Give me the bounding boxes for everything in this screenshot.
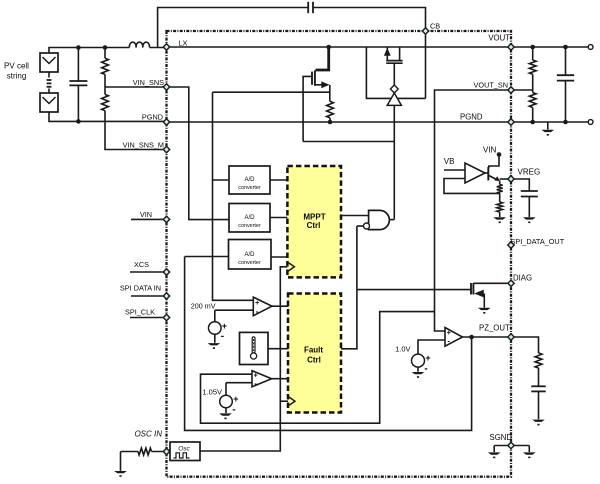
svg-text:converter: converter <box>238 223 261 229</box>
svg-text:Osc: Osc <box>178 446 190 453</box>
svg-text:VREG: VREG <box>518 168 541 177</box>
svg-text:-: - <box>256 306 259 316</box>
svg-text:A/D: A/D <box>244 215 255 221</box>
svg-text:1.05V: 1.05V <box>202 388 222 397</box>
svg-text:Ctrl: Ctrl <box>307 221 321 230</box>
svg-text:SPI_CLK: SPI_CLK <box>125 308 155 317</box>
svg-text:PGND: PGND <box>142 113 163 122</box>
svg-text:VIN: VIN <box>140 210 152 219</box>
svg-text:string: string <box>7 72 27 81</box>
svg-text:CB: CB <box>430 22 440 31</box>
svg-text:converter: converter <box>238 185 261 191</box>
svg-text:SGND: SGND <box>490 433 513 442</box>
svg-text:1.0V: 1.0V <box>395 345 410 354</box>
svg-text:VIN: VIN <box>483 146 497 155</box>
svg-text:+: + <box>425 353 430 363</box>
svg-text:VOUT_SN: VOUT_SN <box>474 81 508 90</box>
svg-text:A/D: A/D <box>244 177 255 183</box>
svg-text:XCS: XCS <box>134 260 149 269</box>
svg-text:converter: converter <box>238 260 261 266</box>
svg-text:Ctrl: Ctrl <box>307 356 321 365</box>
svg-text:A/D: A/D <box>244 252 255 258</box>
svg-text:PZ_OUT: PZ_OUT <box>479 324 510 333</box>
svg-text:200 mV: 200 mV <box>191 302 216 311</box>
svg-text:-: - <box>221 331 224 342</box>
svg-text:-: - <box>232 405 235 416</box>
svg-text:-: - <box>424 363 427 374</box>
svg-text:VIN_SNS: VIN_SNS <box>133 78 164 87</box>
svg-text:+: + <box>233 394 238 404</box>
svg-text:OSC IN: OSC IN <box>134 430 162 439</box>
svg-text:-: - <box>254 379 257 388</box>
svg-text:VB: VB <box>444 157 455 166</box>
svg-text:Fault: Fault <box>304 346 323 355</box>
svg-text:VIN_SNS_M: VIN_SNS_M <box>123 141 164 150</box>
svg-text:-: - <box>447 336 450 345</box>
svg-text:PGND: PGND <box>460 113 483 122</box>
svg-text:VOUT: VOUT <box>488 34 510 43</box>
svg-text:DIAG: DIAG <box>513 274 532 283</box>
svg-text:+: + <box>222 321 227 331</box>
svg-text:PV cell: PV cell <box>4 62 29 71</box>
svg-text:LX: LX <box>179 39 188 48</box>
svg-text:SPI_DATA_OUT: SPI_DATA_OUT <box>511 237 565 246</box>
svg-text:SPI DATA IN: SPI DATA IN <box>120 284 161 293</box>
